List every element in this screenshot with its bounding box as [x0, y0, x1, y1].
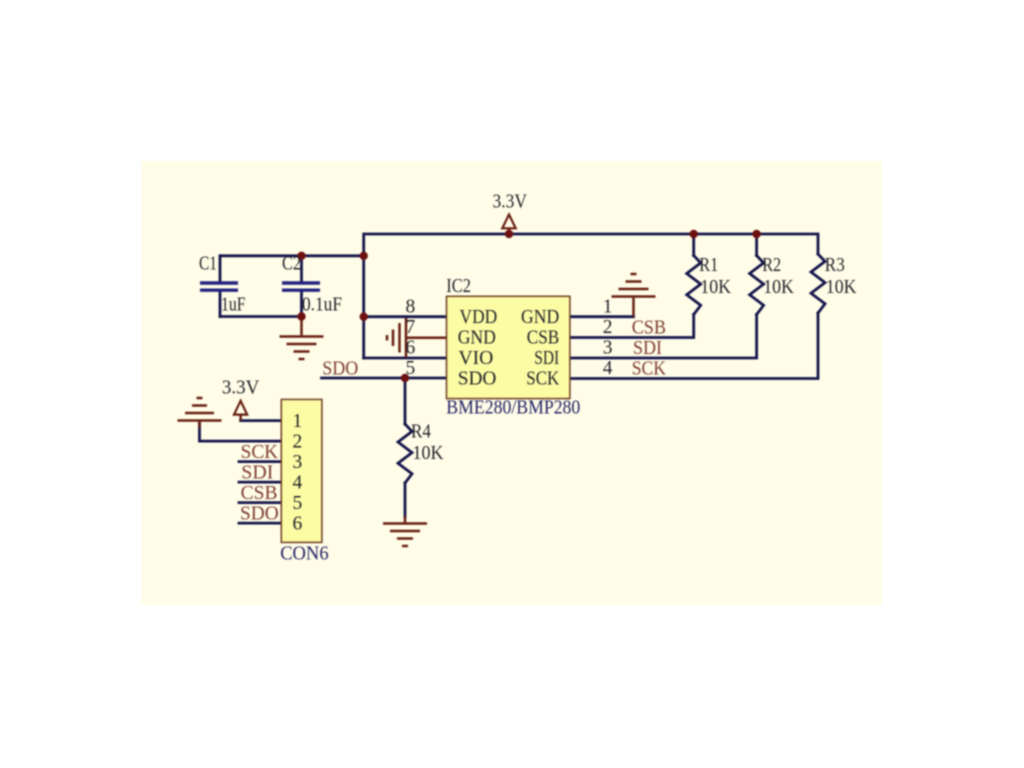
svg-text:5: 5: [406, 358, 416, 379]
wire: pin 8 VDD: [364, 315, 447, 318]
svg-text:8: 8: [406, 297, 416, 318]
svg-text:CSB: CSB: [241, 483, 278, 504]
wire: pin 6 VIO: [364, 357, 447, 360]
junction SDO / R4: [401, 374, 409, 382]
svg-text:6: 6: [293, 514, 303, 535]
wire: CON6 pin 1 to 3.3V: [241, 419, 282, 422]
op-amp-style IC body IC2 (BME280/BMP280): [447, 296, 570, 398]
svg-text:CON6: CON6: [280, 544, 329, 565]
svg-text:R1: R1: [699, 255, 718, 276]
svg-text:3.3V: 3.3V: [493, 192, 528, 213]
ground under R4: [383, 516, 427, 546]
svg-text:SDI: SDI: [241, 463, 273, 484]
wire: C2 bottom stem: [300, 292, 303, 317]
wire: CON6 pin 2 to ground: [200, 423, 282, 441]
svg-text:R3: R3: [825, 255, 845, 276]
svg-text:4: 4: [603, 358, 613, 379]
wire: R1 bottom lead and CSB net to pin 2: [570, 315, 694, 338]
svg-text:10K: 10K: [413, 443, 444, 464]
wire: R4 bottom lead: [404, 483, 407, 517]
svg-text:SDI: SDI: [633, 338, 662, 359]
schematic sheet background: [141, 161, 882, 605]
junction R1 top: [690, 230, 698, 238]
svg-text:3.3V: 3.3V: [222, 378, 260, 399]
wire: R2 top lead: [755, 234, 758, 256]
junction pin8 branch: [360, 313, 368, 321]
svg-text:5: 5: [293, 493, 303, 514]
wire: CON6 pin 4 stub SDI: [239, 481, 281, 484]
wire: CON6 pin 6 stub SDO: [239, 522, 281, 525]
svg-text:SCK: SCK: [241, 442, 279, 463]
svg-text:3: 3: [603, 338, 613, 359]
svg-text:1: 1: [603, 297, 613, 318]
svg-text:GND: GND: [521, 306, 559, 328]
svg-text:IC2: IC2: [446, 276, 471, 297]
capacitor C2 plates: [282, 281, 320, 284]
ground at IC pin 1 (pointing up): [612, 274, 656, 317]
wire: SDO to pin 5: [322, 377, 447, 380]
junction R2 top: [752, 230, 760, 238]
wire: C2 top stem: [300, 256, 303, 282]
junction C2 bottom: [297, 312, 305, 320]
svg-text:4: 4: [293, 473, 303, 494]
svg-text:SDO: SDO: [240, 504, 279, 525]
connector CON6 body: [281, 399, 322, 542]
resistor R1 zigzag: [687, 256, 701, 315]
resistor R4 zigzag: [398, 424, 412, 483]
svg-text:SDO: SDO: [458, 368, 497, 390]
svg-text:R2: R2: [762, 255, 781, 276]
svg-text:SCK: SCK: [526, 368, 559, 390]
power symbol 3.3V at CON6: [234, 401, 247, 421]
resistor R2 zigzag: [750, 256, 764, 315]
svg-text:SDO: SDO: [322, 359, 358, 380]
svg-text:CSB: CSB: [527, 327, 559, 349]
svg-text:1: 1: [293, 411, 303, 432]
svg-text:6: 6: [406, 338, 416, 359]
capacitor C1 plates: [200, 281, 238, 284]
svg-text:3: 3: [293, 452, 303, 473]
junction C2 top: [297, 252, 305, 260]
svg-text:BME280/BMP280: BME280/BMP280: [446, 398, 580, 419]
svg-text:VIO: VIO: [459, 347, 494, 369]
wire: capacitor top net: [220, 254, 364, 257]
svg-text:10K: 10K: [826, 277, 857, 298]
wire: pin 1 GND: [570, 315, 634, 318]
wire: R4 top lead: [404, 378, 407, 424]
junction cap net / rail vertical: [360, 252, 368, 260]
svg-text:C2: C2: [282, 254, 301, 275]
junction under 3.3V symbol: [505, 230, 513, 238]
svg-text:GND: GND: [458, 327, 496, 349]
svg-text:0.1uF: 0.1uF: [302, 295, 342, 316]
svg-text:2: 2: [603, 317, 613, 338]
wire: R1 top lead: [692, 234, 695, 256]
svg-text:R4: R4: [411, 422, 431, 443]
wire: capacitor bottom net: [220, 315, 302, 318]
svg-text:VDD: VDD: [460, 306, 498, 328]
ground under C2: [280, 317, 324, 360]
svg-text:C1: C1: [199, 254, 217, 275]
svg-text:7: 7: [406, 317, 416, 338]
svg-text:SDI: SDI: [534, 347, 559, 369]
wire: 3.3V rail with left vertical and R3 top lead: [364, 234, 818, 358]
svg-text:SCK: SCK: [632, 359, 666, 380]
svg-text:1uF: 1uF: [221, 295, 246, 316]
wire: C1 bottom stem: [219, 292, 222, 317]
svg-text:10K: 10K: [763, 277, 794, 298]
svg-text:10K: 10K: [700, 277, 731, 298]
wire: R2 bottom lead and SDI net to pin 3: [570, 315, 757, 359]
resistor R3 zigzag: [811, 254, 825, 313]
wire: R3 bottom lead and SCK net to pin 4: [570, 313, 818, 379]
ground at IC pin 7 (sideways): [387, 318, 447, 358]
svg-text:2: 2: [293, 432, 303, 453]
wire: CON6 pin 3 stub SCK: [239, 460, 281, 463]
svg-text:CSB: CSB: [632, 318, 666, 339]
ground at CON6 pin 2 (pointing up): [178, 398, 222, 428]
wire: CON6 pin 5 stub CSB: [239, 501, 281, 504]
wire: C1 top stem: [219, 256, 222, 282]
power symbol 3.3V top: [502, 215, 515, 233]
